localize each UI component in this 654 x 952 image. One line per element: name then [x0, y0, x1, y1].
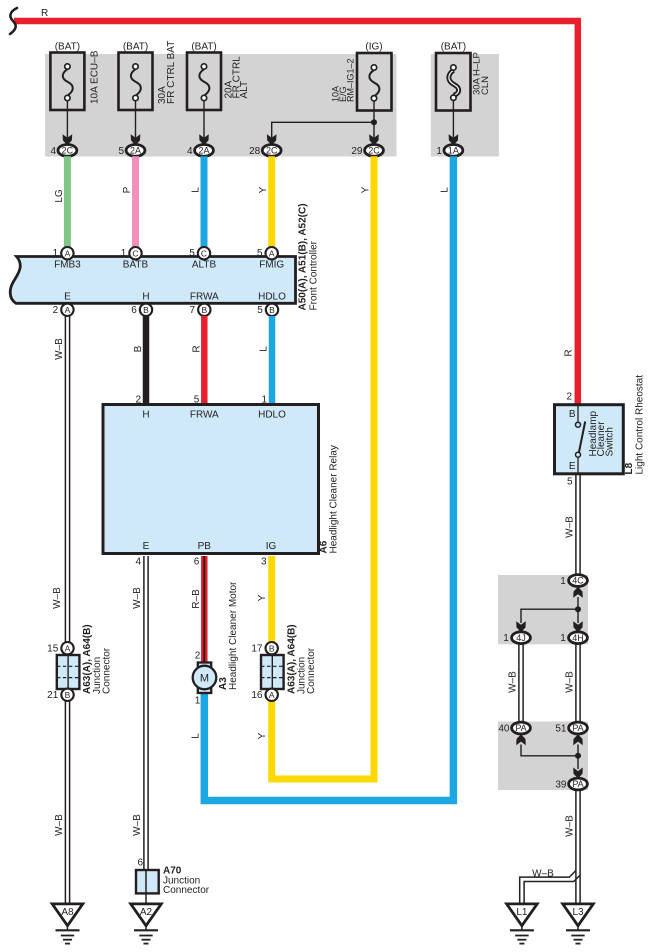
svg-text:Connector: Connector — [163, 885, 210, 896]
connector 40 PA — [498, 722, 530, 745]
wire to 4J and 4H — [521, 597, 581, 623]
svg-text:L: L — [259, 346, 270, 352]
svg-text:2C: 2C — [368, 146, 380, 156]
svg-text:H: H — [142, 410, 149, 421]
svg-text:W–B: W–B — [565, 815, 576, 837]
headlight cleaner relay A6 — [103, 395, 340, 568]
svg-text:1: 1 — [195, 696, 201, 707]
junction connector A63/A64 right — [251, 624, 317, 701]
svg-text:1: 1 — [53, 248, 59, 259]
svg-text:FMIG: FMIG — [259, 260, 284, 271]
svg-text:LG: LG — [54, 189, 65, 203]
svg-text:R: R — [191, 345, 202, 352]
svg-text:PA: PA — [572, 723, 583, 733]
svg-text:ALTB: ALTB — [192, 260, 217, 271]
svg-text:E: E — [64, 292, 71, 303]
svg-text:B: B — [269, 305, 275, 315]
wire W-B left (controller E to ground A8) — [52, 316, 70, 904]
svg-text:5: 5 — [257, 248, 263, 259]
ground L1 — [507, 904, 538, 944]
light control rheostat L8 headlamp cleaner switch — [555, 375, 646, 488]
svg-text:L: L — [439, 187, 450, 193]
svg-text:E: E — [143, 541, 150, 552]
svg-text:1: 1 — [560, 633, 566, 644]
ground A8 — [52, 904, 83, 944]
svg-text:4J: 4J — [516, 633, 526, 643]
svg-text:W–B: W–B — [132, 814, 143, 836]
svg-text:Switch: Switch — [604, 427, 615, 456]
svg-text:6: 6 — [194, 557, 200, 568]
svg-text:Y: Y — [257, 594, 268, 601]
svg-text:5: 5 — [189, 248, 195, 259]
fuse 10A ECU-B — [50, 42, 100, 157]
svg-text:FRWA: FRWA — [190, 292, 219, 303]
pin 5 FMIG — [257, 247, 278, 259]
wire P — [122, 156, 136, 247]
continuation squiggle — [10, 8, 17, 34]
svg-text:40: 40 — [498, 724, 510, 735]
svg-text:W–B: W–B — [54, 814, 65, 836]
svg-text:1: 1 — [436, 146, 442, 157]
svg-text:W–B: W–B — [565, 516, 576, 538]
svg-text:A: A — [65, 248, 71, 258]
svg-text:PB: PB — [198, 541, 212, 552]
svg-text:2C: 2C — [266, 146, 278, 156]
ground L3 — [563, 904, 594, 944]
wire R to FRWA — [191, 316, 204, 404]
svg-text:FMB3: FMB3 — [54, 260, 81, 271]
wire B — [133, 316, 146, 404]
fusible link 30A H-LP CLN — [436, 42, 491, 157]
label Y below junction connector — [257, 732, 268, 739]
svg-text:10A ECU–B: 10A ECU–B — [89, 50, 100, 104]
svg-text:E: E — [569, 461, 576, 472]
connector 39 PA — [555, 778, 587, 790]
svg-text:BATB: BATB — [123, 260, 149, 271]
svg-text:PA: PA — [515, 723, 526, 733]
svg-text:W–B: W–B — [565, 671, 576, 693]
svg-text:Connector: Connector — [306, 647, 317, 694]
wire LG — [54, 156, 67, 247]
svg-text:16: 16 — [251, 690, 263, 701]
wire L to ALTB — [191, 156, 205, 247]
svg-text:B: B — [569, 409, 576, 420]
fuse 30A FR CTRL BAT — [118, 41, 176, 157]
svg-text:(BAT): (BAT) — [191, 42, 216, 53]
front controller A50/A51/A52 — [10, 203, 319, 310]
svg-text:4: 4 — [187, 146, 193, 157]
wire W-B from switch E — [565, 474, 581, 575]
svg-text:5: 5 — [567, 477, 573, 488]
connector 1 4C — [560, 575, 587, 598]
svg-text:1A: 1A — [448, 146, 459, 156]
svg-text:Front Controller: Front Controller — [309, 240, 320, 310]
svg-text:4H: 4H — [572, 633, 584, 643]
svg-text:W–B: W–B — [52, 587, 63, 609]
fuse block band left — [45, 54, 397, 157]
svg-text:1: 1 — [560, 576, 566, 587]
fuse 10A E/G RM-IG1-2 — [331, 42, 392, 157]
svg-text:2A: 2A — [130, 146, 141, 156]
connector 1 4H — [560, 621, 587, 644]
wire W-B to grounds L1/L3 — [565, 790, 581, 904]
wire W-B from relay E — [132, 556, 148, 870]
svg-text:(BAT): (BAT) — [123, 42, 148, 53]
svg-text:1: 1 — [503, 633, 509, 644]
pin 7 FRWA — [190, 304, 211, 316]
svg-text:(BAT): (BAT) — [441, 42, 466, 53]
svg-text:RM–IG1–2: RM–IG1–2 — [346, 58, 356, 102]
wire W-B branch to L1 — [520, 869, 580, 904]
svg-text:FRWA: FRWA — [190, 410, 219, 421]
svg-text:W–B: W–B — [532, 869, 554, 880]
svg-text:W–B: W–B — [132, 587, 143, 609]
svg-text:2: 2 — [566, 392, 572, 403]
wire W-B 4J to PA40 — [508, 644, 524, 723]
svg-text:3: 3 — [261, 557, 267, 568]
svg-text:Y: Y — [257, 732, 268, 739]
svg-text:51: 51 — [555, 724, 567, 735]
wire L long from H-LP fuse — [204, 156, 453, 800]
pin 1 BATB — [121, 247, 142, 259]
svg-text:5: 5 — [118, 146, 124, 157]
svg-text:39: 39 — [555, 780, 567, 791]
svg-text:Headlight Cleaner Relay: Headlight Cleaner Relay — [329, 445, 340, 553]
svg-text:M: M — [200, 673, 209, 685]
svg-text:HDLO: HDLO — [258, 292, 286, 303]
svg-text:29: 29 — [351, 146, 363, 157]
svg-text:A: A — [269, 248, 275, 258]
svg-text:L1: L1 — [516, 907, 528, 918]
svg-text:A8: A8 — [61, 907, 74, 918]
svg-text:H: H — [142, 292, 149, 303]
svg-text:B: B — [133, 345, 144, 352]
svg-text:A50(A), A51(B), A52(C): A50(A), A51(B), A52(C) — [298, 203, 309, 310]
wire Y from relay IG — [257, 556, 272, 642]
svg-text:2C: 2C — [62, 146, 74, 156]
svg-text:CLN: CLN — [480, 76, 491, 95]
svg-text:4C: 4C — [572, 576, 584, 586]
connector 51 PA — [555, 722, 587, 745]
svg-text:2: 2 — [195, 651, 201, 662]
svg-text:HDLO: HDLO — [258, 410, 286, 421]
svg-text:21: 21 — [47, 690, 59, 701]
svg-text:R–B: R–B — [191, 589, 202, 609]
svg-text:2: 2 — [53, 305, 59, 316]
wire W-B 4H to PA51 — [565, 644, 581, 723]
wire R main battery feed — [14, 8, 578, 405]
svg-text:2A: 2A — [198, 146, 209, 156]
svg-text:Light Control Rheostat: Light Control Rheostat — [635, 375, 646, 475]
connector 1 4J — [503, 621, 530, 644]
svg-text:17: 17 — [251, 644, 263, 655]
junction connector A70 — [136, 858, 210, 904]
svg-text:(BAT): (BAT) — [55, 42, 80, 53]
svg-text:B: B — [65, 690, 71, 700]
svg-text:(IG): (IG) — [365, 42, 382, 53]
svg-text:5: 5 — [257, 305, 263, 316]
svg-text:C: C — [201, 248, 207, 258]
svg-text:FR CTRL BAT: FR CTRL BAT — [166, 41, 177, 104]
label L on motor feed — [190, 696, 201, 739]
svg-text:L8: L8 — [624, 462, 635, 474]
svg-text:W–B: W–B — [54, 338, 65, 360]
fuse 20A FR CTRL ALT — [187, 42, 250, 157]
connector band lower right — [498, 722, 588, 791]
svg-text:Y: Y — [360, 186, 371, 193]
wire branch to connector 28 — [249, 119, 377, 157]
svg-text:W–B: W–B — [508, 671, 519, 693]
svg-text:L: L — [190, 733, 201, 739]
svg-text:6: 6 — [131, 305, 137, 316]
junction connector A63/A64 left — [47, 624, 112, 701]
fuse block band right — [431, 54, 499, 157]
svg-text:1: 1 — [121, 248, 127, 259]
svg-text:15: 15 — [47, 644, 59, 655]
pin 6 H — [131, 304, 152, 316]
svg-text:R: R — [41, 8, 48, 19]
svg-text:Headlight Cleaner Motor: Headlight Cleaner Motor — [228, 581, 239, 690]
wire R-B from relay PB — [191, 556, 205, 663]
svg-text:A: A — [65, 643, 71, 653]
motor A3 headlight cleaner motor — [193, 581, 239, 693]
svg-text:28: 28 — [249, 146, 261, 157]
wire Y long from IG fuse — [272, 156, 374, 779]
svg-text:A: A — [65, 305, 71, 315]
svg-text:PA: PA — [572, 779, 583, 789]
pin 5 ALTB — [189, 247, 210, 259]
wire Y to FMIG — [258, 156, 272, 247]
ground A2 — [131, 904, 162, 944]
svg-text:IG: IG — [266, 541, 277, 552]
svg-text:B: B — [201, 305, 207, 315]
pin 5 HDLO — [257, 304, 278, 316]
svg-text:C: C — [132, 248, 138, 258]
svg-text:6: 6 — [137, 858, 143, 869]
connector band upper right — [498, 575, 588, 644]
svg-text:P: P — [122, 186, 133, 193]
svg-text:4: 4 — [50, 146, 56, 157]
svg-text:A: A — [269, 690, 275, 700]
svg-text:L3: L3 — [572, 907, 584, 918]
pin 1 FMB3 — [53, 247, 74, 259]
pin 2 E — [53, 304, 74, 316]
svg-text:A2: A2 — [140, 907, 153, 918]
svg-text:Connector: Connector — [102, 647, 113, 694]
svg-text:R: R — [564, 349, 575, 356]
svg-text:ALT: ALT — [239, 81, 250, 99]
svg-text:L: L — [191, 187, 202, 193]
svg-text:4: 4 — [135, 557, 141, 568]
svg-text:B: B — [143, 305, 149, 315]
svg-text:B: B — [269, 643, 275, 653]
svg-text:Y: Y — [258, 186, 269, 193]
svg-text:7: 7 — [190, 305, 196, 316]
wire PA40/PA51 to PA39 — [521, 745, 583, 779]
wire L to HDLO — [259, 316, 273, 404]
